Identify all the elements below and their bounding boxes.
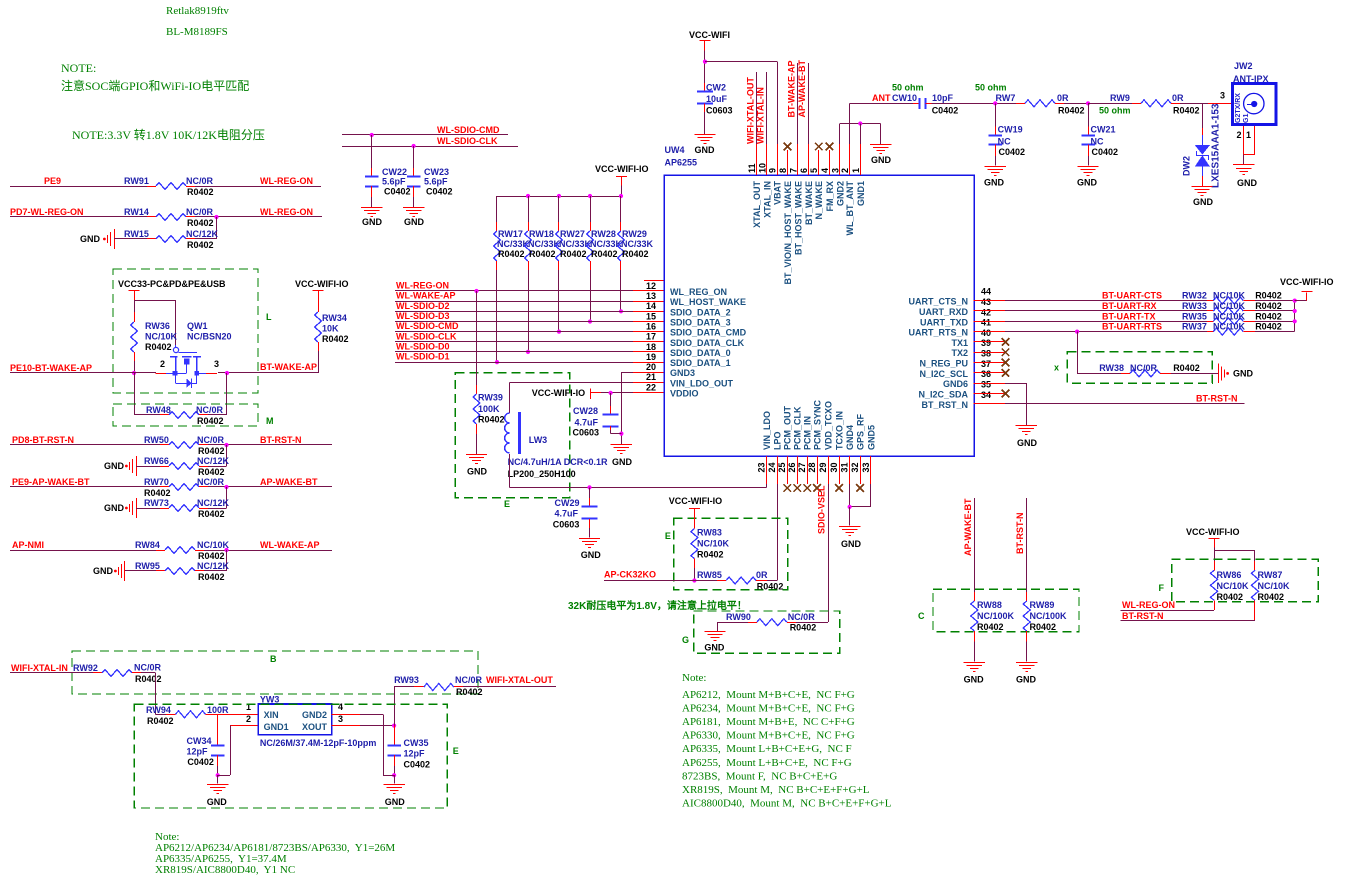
svg-text:NC/100K: NC/100K bbox=[977, 611, 1015, 621]
svg-text:GND: GND bbox=[80, 234, 101, 244]
capacitor CW21 (shunt) bbox=[1088, 103, 1090, 126]
svg-text:28: 28 bbox=[807, 462, 817, 472]
svg-text:VIN_LDO: VIN_LDO bbox=[762, 411, 772, 450]
svg-text:WL-WAKE-AP: WL-WAKE-AP bbox=[396, 291, 456, 301]
junction VCC-WIFI/VBAT bbox=[703, 60, 707, 64]
wire JW2 to ground bbox=[1243, 154, 1245, 164]
svg-text:AP6330, Mount M+B+C+E, NC F+: AP6330, Mount M+B+C+E, NC F+G bbox=[682, 730, 855, 742]
IC right pin stubs bbox=[974, 300, 1006, 302]
dashed option box C bbox=[933, 589, 1079, 631]
svg-text:F: F bbox=[1159, 583, 1165, 593]
svg-text:GPS_RF: GPS_RF bbox=[856, 413, 866, 450]
ground (GND4/GND5) bbox=[839, 526, 860, 528]
junction VDDIO/CW28 bbox=[609, 391, 613, 395]
wire RW37 to rail bbox=[1255, 331, 1295, 333]
svg-text:NC/12K: NC/12K bbox=[197, 498, 230, 508]
svg-text:BT-UART-TX: BT-UART-TX bbox=[1102, 311, 1156, 321]
svg-text:VCC33-PC&PD&PE&USB: VCC33-PC&PD&PE&USB bbox=[118, 279, 226, 289]
svg-text:VCC-WIFI-IO: VCC-WIFI-IO bbox=[532, 388, 586, 398]
svg-text:11: 11 bbox=[747, 163, 757, 173]
wire WL-SDIO-D0 to pin 19 bbox=[395, 351, 633, 353]
svg-text:3: 3 bbox=[830, 168, 840, 173]
resistor RW92 bbox=[93, 672, 102, 674]
svg-text:XTAL_IN: XTAL_IN bbox=[762, 181, 772, 218]
wire pin 34 BT-RST-N bbox=[1005, 403, 1245, 405]
ground (GND2/GND1) bbox=[870, 144, 891, 146]
svg-text:50 ohm: 50 ohm bbox=[975, 83, 1007, 93]
wire VCC33 tee to gate bbox=[134, 300, 176, 302]
wire RW35 to rail bbox=[1255, 321, 1295, 323]
svg-text:VBAT: VBAT bbox=[773, 181, 783, 205]
pin VDDIO stub bbox=[633, 392, 664, 394]
no-connect X pin 26 bbox=[793, 484, 801, 492]
svg-text:N_I2C_SCL: N_I2C_SCL bbox=[919, 369, 968, 379]
svg-text:27: 27 bbox=[797, 462, 807, 472]
no-connect X pin 25 bbox=[783, 484, 791, 492]
svg-text:36: 36 bbox=[981, 369, 991, 379]
svg-text:TX1: TX1 bbox=[951, 338, 968, 348]
svg-text:CW23: CW23 bbox=[424, 167, 449, 177]
svg-text:BT-UART-RX: BT-UART-RX bbox=[1102, 301, 1157, 311]
svg-text:UART_TXD: UART_TXD bbox=[920, 317, 969, 327]
svg-text:NC/33K: NC/33K bbox=[497, 239, 530, 249]
wire RW39 to ground bbox=[476, 434, 478, 454]
svg-text:NC/33K: NC/33K bbox=[528, 239, 561, 249]
wire CW19 to ground bbox=[995, 156, 997, 166]
ground (RW15) bbox=[114, 229, 116, 249]
no-connect X pin 5 bbox=[815, 143, 823, 151]
svg-text:R0402: R0402 bbox=[198, 572, 225, 582]
wire RW73 to junction bbox=[208, 508, 227, 510]
svg-text:Retlak8919ftv: Retlak8919ftv bbox=[166, 5, 229, 17]
svg-text:NC/0R: NC/0R bbox=[197, 477, 225, 487]
wire WL-WAKE-AP to pin 14 bbox=[395, 301, 633, 303]
dashed option box E (RW83) bbox=[674, 518, 788, 590]
svg-text:2: 2 bbox=[1237, 130, 1242, 140]
ground (GND6) bbox=[1016, 425, 1037, 427]
svg-text:YW3: YW3 bbox=[260, 694, 280, 704]
ground (DW2) bbox=[1191, 186, 1212, 188]
svg-text:WL-SDIO-CLK: WL-SDIO-CLK bbox=[437, 136, 498, 146]
wire to ground bbox=[394, 775, 396, 783]
svg-text:RW86: RW86 bbox=[1217, 570, 1242, 580]
wire pullup bus bbox=[497, 196, 622, 198]
svg-text:NC/0R: NC/0R bbox=[196, 405, 224, 415]
svg-text:R0402: R0402 bbox=[198, 509, 225, 519]
wire gnd to RW15 bbox=[114, 238, 147, 240]
wire pin 36 GND6 to ground bbox=[1005, 383, 1026, 385]
svg-text:8: 8 bbox=[778, 168, 788, 173]
crystal YW3 bbox=[258, 704, 331, 735]
wire RW18 down to SDIO row bbox=[528, 270, 530, 352]
wire bus to RW17 bbox=[496, 196, 498, 222]
svg-text:WL-SDIO-D3: WL-SDIO-D3 bbox=[396, 311, 450, 321]
resistor RW34 bbox=[318, 299, 320, 312]
svg-text:7: 7 bbox=[788, 168, 798, 173]
ground (CW34) bbox=[207, 784, 228, 786]
wire RW27 down to SDIO row bbox=[558, 270, 560, 332]
svg-text:XOUT: XOUT bbox=[302, 722, 328, 732]
svg-text:C0402: C0402 bbox=[426, 187, 453, 197]
junction QW1/RW48 bbox=[225, 371, 229, 375]
wire gnd to RW95 bbox=[125, 570, 156, 572]
svg-text:RW89: RW89 bbox=[1030, 600, 1055, 610]
svg-text:TX2: TX2 bbox=[951, 348, 968, 358]
svg-text:UART_CTS_N: UART_CTS_N bbox=[908, 297, 968, 307]
svg-text:NC/0R: NC/0R bbox=[134, 663, 162, 673]
svg-text:CW28: CW28 bbox=[573, 406, 598, 416]
svg-text:R0402: R0402 bbox=[145, 342, 172, 352]
svg-text:RW35: RW35 bbox=[1182, 311, 1207, 321]
resistor RW15 bbox=[147, 238, 156, 240]
svg-text:3: 3 bbox=[214, 359, 219, 369]
resistor RW70 bbox=[160, 486, 169, 488]
svg-text:GND: GND bbox=[1017, 438, 1038, 448]
svg-text:GND2: GND2 bbox=[835, 181, 845, 206]
wire pins 3+1 to GND bbox=[839, 124, 841, 145]
svg-text:41: 41 bbox=[981, 318, 991, 328]
svg-text:XTAL_OUT: XTAL_OUT bbox=[752, 181, 762, 228]
svg-text:21: 21 bbox=[646, 372, 656, 382]
svg-text:2: 2 bbox=[160, 359, 165, 369]
svg-text:R0402: R0402 bbox=[1217, 592, 1244, 602]
svg-text:AP6212, Mount M+B+C+E, NC F+: AP6212, Mount M+B+C+E, NC F+G bbox=[682, 689, 855, 701]
junction RTS/RW38 bbox=[1075, 330, 1079, 334]
svg-text:17: 17 bbox=[646, 332, 656, 342]
svg-text:GND: GND bbox=[207, 797, 228, 807]
pin 13 stub bbox=[633, 290, 664, 292]
svg-text:4: 4 bbox=[820, 168, 830, 173]
wire WL-SDIO-D1 to pin 20 bbox=[395, 362, 633, 364]
svg-text:RW38: RW38 bbox=[1099, 363, 1124, 373]
svg-text:31: 31 bbox=[840, 462, 850, 472]
svg-text:XR819S, Mount M, NC B+C+E+F+: XR819S, Mount M, NC B+C+E+F+G+L bbox=[682, 784, 870, 796]
svg-text:5: 5 bbox=[809, 168, 819, 173]
svg-text:NC/10K: NC/10K bbox=[1213, 291, 1246, 301]
capacitor CW22 bbox=[371, 168, 373, 177]
svg-text:PCM_SYNC: PCM_SYNC bbox=[813, 399, 823, 450]
junction RW14/RW15 bbox=[214, 215, 218, 219]
svg-text:RW73: RW73 bbox=[144, 498, 169, 508]
wire down to DW2 bbox=[1202, 103, 1204, 128]
capacitor CW10 (series) bbox=[913, 103, 919, 105]
svg-text:R0402: R0402 bbox=[591, 249, 618, 259]
wire gnd to RW66 bbox=[136, 466, 160, 468]
junction WL-REG-ON/RW39 bbox=[474, 289, 478, 293]
wire RW95 to junction bbox=[204, 570, 227, 572]
svg-text:GND1: GND1 bbox=[856, 181, 866, 206]
svg-text:R0402: R0402 bbox=[1255, 301, 1282, 311]
wire RW89 to ground bbox=[1026, 642, 1028, 662]
wire CW21 to ground bbox=[1088, 156, 1090, 166]
svg-text:NOTE:: NOTE: bbox=[61, 61, 96, 75]
svg-text:PCM_OUT: PCM_OUT bbox=[783, 405, 793, 450]
svg-text:C0603: C0603 bbox=[572, 428, 599, 438]
svg-text:UART_RTS_N: UART_RTS_N bbox=[908, 328, 968, 338]
svg-text:NC/10K: NC/10K bbox=[145, 332, 178, 342]
junction CW22 bbox=[370, 133, 374, 137]
svg-text:GND3: GND3 bbox=[670, 368, 695, 378]
svg-text:RW7: RW7 bbox=[996, 93, 1016, 103]
svg-text:CW34: CW34 bbox=[187, 736, 212, 746]
svg-text:R0402: R0402 bbox=[198, 551, 225, 561]
ground (CW35) bbox=[383, 784, 404, 786]
wire RW83 down bbox=[694, 568, 696, 581]
wire power to bus bbox=[621, 186, 623, 197]
svg-text:NC/0R: NC/0R bbox=[455, 675, 483, 685]
capacitor CW29 bbox=[589, 487, 591, 498]
resistor RW86 bbox=[1214, 561, 1216, 570]
svg-text:RW17: RW17 bbox=[498, 229, 523, 239]
ground (RW38) bbox=[1218, 364, 1220, 384]
junction pin 1 bbox=[858, 121, 862, 125]
wire PE9 to RW91 bbox=[10, 186, 147, 188]
capacitor CW34 bbox=[217, 714, 219, 745]
svg-text:C0603: C0603 bbox=[706, 105, 733, 115]
junction rail 44 bbox=[1293, 299, 1297, 303]
pin 17 stub bbox=[633, 331, 664, 333]
svg-text:注意SOC端GPIO和WiFi-IO电平匹配: 注意SOC端GPIO和WiFi-IO电平匹配 bbox=[61, 78, 249, 93]
svg-text:R0402: R0402 bbox=[560, 249, 587, 259]
resistor RW91 bbox=[147, 186, 156, 188]
wire RW90 to ground bbox=[717, 622, 748, 624]
wire PE10 to QW1 bbox=[10, 372, 156, 374]
wire pin 44 bbox=[1005, 300, 1207, 302]
pin 15 stub bbox=[633, 311, 664, 313]
resistor RW95 bbox=[156, 570, 165, 572]
svg-text:WL-SDIO-CMD: WL-SDIO-CMD bbox=[396, 321, 459, 331]
no-connect X pin 37 bbox=[1002, 369, 1010, 377]
wire RW70 to AP-WAKE-BT bbox=[208, 486, 332, 488]
wire junction down to RW15 bbox=[216, 217, 218, 239]
svg-text:12pF: 12pF bbox=[404, 749, 426, 759]
wire pin 23 down to VIN_LDO net bbox=[766, 484, 768, 487]
svg-text:24: 24 bbox=[767, 462, 777, 472]
svg-text:R0402: R0402 bbox=[1255, 311, 1282, 321]
svg-text:18: 18 bbox=[646, 342, 656, 352]
dashed option box M bbox=[113, 404, 258, 426]
wire RW33 to rail bbox=[1255, 310, 1295, 312]
svg-text:12pF: 12pF bbox=[187, 746, 209, 756]
wire bus to RW29 bbox=[620, 196, 622, 222]
svg-text:NC/26M/37.4M-12pF-10ppm: NC/26M/37.4M-12pF-10ppm bbox=[260, 738, 377, 748]
svg-text:VIN_LDO_OUT: VIN_LDO_OUT bbox=[670, 378, 734, 388]
svg-text:LXES15AAA1-153: LXES15AAA1-153 bbox=[1211, 103, 1222, 188]
capacitor CW35 bbox=[394, 726, 396, 746]
resistor RW29 bbox=[620, 222, 622, 231]
svg-text:C0402: C0402 bbox=[999, 147, 1026, 157]
wire junction down to RW48 right bbox=[226, 373, 228, 415]
svg-text:RW39: RW39 bbox=[478, 393, 503, 403]
svg-text:CW35: CW35 bbox=[404, 738, 429, 748]
pin 22 VIN_LDO_OUT wire from LW3 bbox=[633, 382, 664, 384]
svg-text:JW2: JW2 bbox=[1234, 61, 1253, 71]
svg-text:SDIO_DATA_CLK: SDIO_DATA_CLK bbox=[670, 338, 745, 348]
wire RW92 out bbox=[141, 672, 155, 674]
pin 3 of JW2 bbox=[1208, 103, 1231, 105]
svg-text:RW94: RW94 bbox=[146, 705, 171, 715]
wire RW38 to ground bbox=[1171, 373, 1218, 375]
svg-text:WL-SDIO-CLK: WL-SDIO-CLK bbox=[396, 331, 457, 341]
svg-text:WL-SDIO-D1: WL-SDIO-D1 bbox=[396, 352, 450, 362]
junction XOUT/CW35 bbox=[392, 724, 396, 728]
ground (GND3) bbox=[611, 444, 632, 446]
svg-text:15: 15 bbox=[646, 311, 656, 321]
ground (RW39) bbox=[466, 454, 487, 456]
wire RW36 to PE10 row bbox=[134, 361, 136, 373]
wire VCC-WIFI down to CW2 bbox=[704, 51, 706, 84]
svg-text:RW18: RW18 bbox=[529, 229, 554, 239]
svg-text:0R: 0R bbox=[1057, 93, 1069, 103]
wire GND2 down bbox=[383, 714, 385, 775]
svg-text:N_I2C_SDA: N_I2C_SDA bbox=[918, 390, 968, 400]
wire WL-SDIO-D2 to pin 15 bbox=[395, 311, 633, 313]
svg-text:R0402: R0402 bbox=[1058, 106, 1085, 116]
resistor RW9 bbox=[1088, 103, 1132, 105]
pin 16 stub bbox=[633, 321, 664, 323]
svg-text:3: 3 bbox=[338, 714, 343, 724]
svg-text:35: 35 bbox=[981, 380, 991, 390]
resistor RW14 bbox=[147, 216, 156, 218]
svg-text:VCC-WIFI-IO: VCC-WIFI-IO bbox=[595, 164, 649, 174]
svg-text:SDIO-VSEL: SDIO-VSEL bbox=[817, 485, 827, 534]
svg-text:R0402: R0402 bbox=[977, 622, 1004, 632]
svg-text:NC/12K: NC/12K bbox=[197, 561, 230, 571]
svg-text:GND: GND bbox=[612, 457, 633, 467]
svg-text:RW90: RW90 bbox=[726, 612, 751, 622]
wire AP-CK32KO bbox=[604, 580, 694, 582]
resistor RW28 bbox=[590, 222, 592, 231]
svg-text:BT-RST-N: BT-RST-N bbox=[1196, 394, 1238, 404]
svg-text:GND: GND bbox=[1193, 197, 1214, 207]
wire CW28 to GND3 riser bbox=[610, 430, 612, 434]
wire pin 7 BT_HOST_WAKE bbox=[797, 63, 799, 144]
svg-text:CW10: CW10 bbox=[892, 93, 917, 103]
wire RW85 to pin 24 riser bbox=[767, 580, 777, 582]
wire WIFI-XTAL-IN to RW92 bbox=[10, 672, 93, 674]
svg-text:L: L bbox=[266, 312, 272, 322]
wire RW90 gnd drop bbox=[717, 622, 719, 631]
resistor RW93 bbox=[394, 687, 396, 726]
svg-text:M: M bbox=[266, 416, 274, 426]
wire RTS down to RW38 bbox=[1077, 332, 1079, 374]
svg-text:WL-SDIO-CMD: WL-SDIO-CMD bbox=[437, 125, 500, 135]
svg-text:WL_HOST_WAKE: WL_HOST_WAKE bbox=[670, 297, 746, 307]
svg-text:10K: 10K bbox=[322, 324, 339, 334]
svg-text:NC/4.7uH/1A DCR<0.1R: NC/4.7uH/1A DCR<0.1R bbox=[508, 457, 608, 467]
svg-text:GND: GND bbox=[841, 539, 862, 549]
svg-text:NC/10K: NC/10K bbox=[1213, 311, 1246, 321]
svg-text:WL-SDIO-D2: WL-SDIO-D2 bbox=[396, 301, 450, 311]
svg-text:UART_RXD: UART_RXD bbox=[919, 307, 969, 317]
resistor RW39 bbox=[476, 385, 478, 394]
junction CW19 bbox=[993, 101, 997, 105]
wire RW15 to junction bbox=[195, 238, 217, 240]
junction CW29 bbox=[587, 485, 591, 489]
wire junction down to RW73 bbox=[226, 487, 228, 508]
svg-text:LW3: LW3 bbox=[529, 435, 548, 445]
svg-text:WL_BT_ANT: WL_BT_ANT bbox=[845, 181, 855, 236]
resistor RW88 bbox=[974, 592, 976, 601]
ground (JW2) bbox=[1233, 164, 1254, 166]
svg-text:AP6234, Mount M+B+C+E, NC F+: AP6234, Mount M+B+C+E, NC F+G bbox=[682, 703, 855, 715]
wire VCC-WIFI to VBAT pin 9 bbox=[705, 61, 777, 63]
svg-text:GND: GND bbox=[964, 675, 985, 685]
svg-text:4.7uF: 4.7uF bbox=[555, 509, 579, 519]
svg-text:GND1: GND1 bbox=[264, 722, 289, 732]
svg-text:PE10-BT-WAKE-AP: PE10-BT-WAKE-AP bbox=[10, 363, 92, 373]
resistor RW50 bbox=[160, 444, 169, 446]
wire QW1 drain to RW34 bbox=[218, 372, 318, 374]
svg-text:NC/10K: NC/10K bbox=[1217, 581, 1250, 591]
wire pin 2 WL_BT_ANT up bbox=[849, 103, 851, 144]
svg-text:RW34: RW34 bbox=[322, 313, 347, 323]
svg-text:R0402: R0402 bbox=[1173, 363, 1200, 373]
svg-text:RW85: RW85 bbox=[697, 570, 722, 580]
junction CW28/GND3 bbox=[619, 432, 623, 436]
svg-text:PD8-BT-RST-N: PD8-BT-RST-N bbox=[12, 435, 74, 445]
svg-text:NC/33K: NC/33K bbox=[559, 239, 592, 249]
capacitor CW2 bbox=[704, 83, 706, 91]
wire PD8 to RW50 bbox=[10, 444, 160, 446]
ground (CW2) bbox=[694, 134, 715, 136]
svg-text:100R: 100R bbox=[207, 705, 229, 715]
svg-text:PCM_CLK: PCM_CLK bbox=[793, 406, 803, 450]
ground (RW89) bbox=[1016, 662, 1037, 664]
svg-text:XR819S/AIC8800D40, Y1 NC: XR819S/AIC8800D40, Y1 NC bbox=[155, 864, 295, 876]
svg-text:BT_HOST_WAKE: BT_HOST_WAKE bbox=[793, 181, 803, 255]
svg-text:R0402: R0402 bbox=[1258, 592, 1285, 602]
junction RW18 bbox=[526, 350, 530, 354]
IC bottom pin stubs bbox=[766, 456, 768, 484]
svg-text:NOTE:3.3V 转1.8V 10K/12K电阻分压: NOTE:3.3V 转1.8V 10K/12K电阻分压 bbox=[72, 127, 265, 142]
svg-text:FM_RX: FM_RX bbox=[825, 181, 835, 212]
junction bus bbox=[588, 194, 592, 198]
svg-text:VDDIO: VDDIO bbox=[670, 389, 699, 399]
svg-text:GND: GND bbox=[362, 217, 383, 227]
svg-text:1: 1 bbox=[1246, 130, 1251, 140]
svg-text:R0402: R0402 bbox=[187, 218, 214, 228]
svg-text:WL-REG-ON: WL-REG-ON bbox=[396, 281, 449, 291]
svg-text:XIN: XIN bbox=[264, 710, 279, 720]
wire RW88 to ground bbox=[974, 642, 976, 662]
svg-text:32: 32 bbox=[850, 462, 860, 472]
svg-text:x: x bbox=[1054, 363, 1059, 373]
pin 14 stub bbox=[633, 301, 664, 303]
resistor RW38 bbox=[1077, 373, 1121, 375]
svg-text:GND: GND bbox=[1077, 178, 1098, 188]
capacitor CW28 bbox=[610, 393, 612, 406]
svg-text:R0402: R0402 bbox=[1255, 291, 1282, 301]
svg-text:10uF: 10uF bbox=[706, 94, 728, 104]
svg-text:BT-WAKE-AP: BT-WAKE-AP bbox=[787, 61, 797, 118]
wire bus to RW27 bbox=[558, 196, 560, 222]
svg-text:VCC-WIFI-IO: VCC-WIFI-IO bbox=[1186, 527, 1240, 537]
svg-text:BT_VIO/N_HOST_WAKE: BT_VIO/N_HOST_WAKE bbox=[783, 181, 793, 285]
ground (CW22) bbox=[361, 207, 382, 209]
wire WL-SDIO-CLK to pin 18 bbox=[395, 341, 633, 343]
svg-text:PE9-AP-WAKE-BT: PE9-AP-WAKE-BT bbox=[12, 477, 90, 487]
wire GND2 bbox=[360, 714, 383, 716]
svg-text:GND: GND bbox=[581, 550, 602, 560]
svg-text:NC/12K: NC/12K bbox=[197, 456, 230, 466]
svg-text:RW95: RW95 bbox=[135, 561, 160, 571]
svg-text:NC/100K: NC/100K bbox=[1030, 611, 1068, 621]
pin 21 GND3 path bbox=[633, 372, 664, 374]
resistor RW33 bbox=[1207, 310, 1213, 312]
svg-text:40: 40 bbox=[981, 328, 991, 338]
IC top pin stubs bbox=[756, 144, 758, 175]
